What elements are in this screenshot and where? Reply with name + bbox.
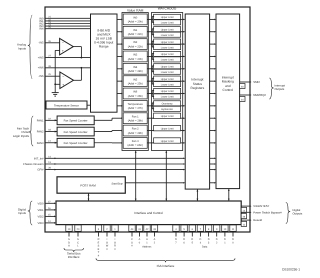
- svg-text:IN4: IN4: [133, 66, 138, 69]
- svg-text:IN4: IN4: [39, 28, 44, 31]
- svg-text:Registers: Registers: [191, 86, 205, 90]
- wire IN4: [45, 28, 91, 30]
- wire watchdog to interrupt status row 4: [181, 68, 184, 70]
- wire value to watchdog row 9: [147, 130, 153, 132]
- svg-text:IN5: IN5: [133, 78, 138, 81]
- register Fan 1 value (Addr = 28h): [123, 113, 147, 124]
- svg-text:IN1: IN1: [133, 29, 138, 32]
- wire interrupt status to masking row 2: [210, 43, 215, 45]
- wire value to watchdog row 4: [147, 68, 152, 70]
- pin 10 bottom stub: [224, 225, 226, 237]
- wire fan counter 1 to value RAM: [94, 119, 112, 121]
- block A/D converter and MUX: [91, 14, 118, 112]
- svg-text:Control: Control: [223, 88, 234, 92]
- wire Chassis Intrusion: [45, 163, 184, 165]
- wire GPI# continuation to interrupt masking: [210, 169, 215, 171]
- pin 19 bottom stub: [68, 225, 70, 237]
- svg-text:Fan Speed Counter: Fan Speed Counter: [64, 120, 88, 123]
- wire temperature sensor to A/D: [87, 104, 91, 106]
- wire interrupt status to masking row 8: [210, 117, 215, 119]
- register watchdog lower limit row 3: [154, 57, 181, 62]
- register watchdog upper limit row 3: [154, 51, 181, 56]
- wire value to watchdog row 7: [147, 105, 152, 107]
- pin 43 bottom stub: [154, 225, 156, 237]
- svg-text:VID4/NTEST: VID4/NTEST: [253, 204, 269, 208]
- ground: [52, 92, 59, 94]
- pin 13 (VID4/NTEST): [241, 207, 246, 212]
- pin 5 bottom stub: [183, 225, 185, 237]
- block fan speed counter 1: [57, 116, 94, 125]
- svg-text:Temperature Sensor: Temperature Sensor: [54, 104, 79, 107]
- register watchdog upper limit row 4: [154, 64, 181, 69]
- pin 4 bottom stub: [175, 225, 177, 237]
- svg-text:Upper Limit: Upper Limit: [161, 78, 174, 81]
- wire interrupt status to interface (bidirectional): [196, 189, 198, 201]
- wire Power Switch Bypass# output: [241, 211, 251, 213]
- register IN1 value (Addr = 21h): [123, 26, 147, 37]
- svg-text:IN2: IN2: [133, 41, 138, 44]
- wire value to watchdog row 0: [147, 18, 152, 20]
- pin 2 bottom stub: [106, 225, 108, 237]
- wire NMI/IRQ# output: [240, 94, 251, 96]
- wire interrupt status to masking row 1: [210, 31, 215, 33]
- pin 41 bottom stub: [139, 225, 141, 237]
- svg-text:VID3: VID3: [38, 222, 44, 225]
- register watchdog lower limit row 6: [154, 94, 181, 99]
- pin 6 bottom stub: [191, 225, 193, 237]
- svg-text:Reset#: Reset#: [253, 218, 262, 222]
- wire VID1: [45, 209, 55, 211]
- wire POST RAM to interface (bidirectional): [88, 193, 90, 201]
- wire Chassis Intrusion continuation to interrupt masking: [210, 163, 215, 165]
- svg-text:Upper Limit: Upper Limit: [161, 90, 174, 93]
- register watchdog lower limit row 4: [154, 69, 181, 74]
- svg-text:POST RAM: POST RAM: [80, 184, 96, 188]
- node junction U3+ / ground rail: [54, 83, 56, 85]
- svg-text:Lower Limit: Lower Limit: [161, 83, 174, 86]
- register watchdog lower limit row 1: [154, 32, 181, 37]
- svg-text:FAN3: FAN3: [37, 142, 44, 145]
- register watchdog upper limit row 7: [154, 101, 181, 106]
- svg-text:Upper Limit: Upper Limit: [161, 140, 174, 143]
- pin 8 bottom stub: [208, 225, 210, 237]
- wire IN3: [45, 25, 91, 27]
- svg-text:Inputs: Inputs: [18, 211, 26, 215]
- wire value to watchdog row 5: [147, 80, 152, 82]
- svg-text:WATCHDOG: WATCHDOG: [158, 7, 177, 11]
- wire INT_In#: [45, 157, 184, 159]
- svg-text:Upper Limit: Upper Limit: [161, 127, 174, 130]
- wire op-amp U3 output to IN6 node: [74, 79, 82, 81]
- wire -IN6: [45, 75, 60, 77]
- wire A/D to value register row 5: [117, 80, 121, 82]
- svg-text:Upper Limit: Upper Limit: [161, 41, 174, 44]
- register Fan 2 value (Addr = 29h): [123, 125, 147, 136]
- svg-text:Lower Limit: Lower Limit: [161, 96, 174, 99]
- svg-text:IN3: IN3: [133, 54, 138, 57]
- svg-text:Fan 1: Fan 1: [132, 115, 139, 118]
- svg-text:Lower Limit: Lower Limit: [161, 34, 174, 37]
- wire interrupt status to masking row 7: [210, 105, 215, 107]
- svg-text:Lower Limit: Lower Limit: [161, 59, 174, 62]
- wire value to watchdog row 3: [147, 55, 152, 57]
- wire interrupt status to masking row 5: [210, 80, 215, 82]
- svg-text:Upper Limit: Upper Limit: [161, 28, 174, 31]
- wire value to watchdog row 8: [147, 117, 153, 119]
- wire op-amp U2 noninverting input to ground rail: [55, 49, 59, 51]
- register watchdog lower limit row 7: [154, 106, 181, 111]
- svg-text:(Addr = 28h): (Addr = 28h): [128, 120, 143, 123]
- svg-text:Lower Limit: Lower Limit: [161, 46, 174, 49]
- register watchdog upper limit row 6: [154, 88, 181, 93]
- svg-text:IN6: IN6: [133, 91, 138, 94]
- wire VID3: [45, 222, 55, 224]
- register watchdog upper limit row 5: [154, 76, 181, 81]
- svg-text:VID0: VID0: [38, 202, 44, 205]
- op-amp U3 (IN6 inverter): [60, 72, 74, 89]
- svg-text:FAN2: FAN2: [37, 131, 44, 134]
- wire watchdog to interrupt status row 0: [181, 18, 184, 20]
- register IN2 value (Addr = 22h): [123, 39, 147, 50]
- register watchdog fan limit row 8: [154, 113, 181, 118]
- register watchdog lower limit row 2: [154, 45, 181, 50]
- pin 9 bottom stub: [216, 225, 218, 237]
- wire IN2: [45, 23, 91, 25]
- wire value to watchdog row 2: [147, 43, 152, 45]
- svg-text:(Addr = 21h): (Addr = 21h): [128, 33, 143, 36]
- block interrupt masking and control: [216, 14, 240, 189]
- pin 11 bottom stub: [232, 225, 234, 237]
- svg-text:Fan 2: Fan 2: [132, 128, 139, 131]
- register watchdog lower limit row 5: [154, 82, 181, 87]
- bracket analog inputs: [28, 15, 32, 79]
- svg-text:-IN5: -IN5: [38, 42, 44, 45]
- svg-text:(Addr = 22h): (Addr = 22h): [128, 45, 143, 48]
- wire +IN6: [45, 67, 91, 69]
- svg-text:−: −: [62, 75, 64, 79]
- pin 36 (Power Switch Bypass#): [241, 214, 246, 219]
- pin 3 bottom stub: [98, 225, 100, 237]
- svg-text:Upper Limit: Upper Limit: [161, 66, 174, 69]
- wire fan counter 3 to value RAM: [94, 142, 112, 144]
- svg-text:Value RAM: Value RAM: [127, 9, 144, 13]
- svg-text:INT_In#: INT_In#: [34, 157, 44, 160]
- wire A/D to value register row 0: [117, 18, 121, 20]
- svg-text:Start/Stop: Start/Stop: [111, 183, 123, 186]
- wire watchdog to interrupt status row 10: [181, 142, 184, 144]
- wire POST RAM start/stop to interrupt status: [125, 182, 183, 184]
- wire watchdog to interface (bidirectional): [165, 151, 167, 202]
- wire interrupt status to masking row 10: [210, 142, 215, 144]
- wire interrupt status to masking row 9: [210, 130, 215, 132]
- svg-text:Logic Inputs: Logic Inputs: [13, 134, 30, 138]
- block interrupt status registers: [185, 14, 209, 189]
- wire value RAM to interface (bidirectional): [135, 151, 137, 202]
- wire interrupt status to masking row 6: [210, 93, 215, 95]
- svg-text:Upper Limit: Upper Limit: [161, 16, 174, 19]
- svg-text:+IN5: +IN5: [38, 57, 44, 60]
- wire interrupt status to masking row 0: [210, 18, 215, 20]
- register Temperature value (Addr = 27h): [123, 100, 147, 111]
- svg-text:NMI/IRQ#: NMI/IRQ#: [253, 93, 266, 97]
- wire interrupt status to masking row 4: [210, 68, 215, 70]
- svg-text:DS100236-1: DS100236-1: [282, 268, 300, 272]
- wire start/stop continuation to interrupt masking: [210, 182, 215, 184]
- svg-text:(Addr = 23h): (Addr = 23h): [128, 58, 143, 61]
- bracket digital inputs: [28, 201, 32, 225]
- wire A/D to value register row 2: [117, 43, 121, 45]
- register Fan 3 value (Addr = 2Ah): [123, 138, 147, 149]
- wire +IN5: [45, 57, 91, 59]
- svg-text:Data: Data: [202, 245, 208, 248]
- register IN5 value (Addr = 25h): [123, 76, 147, 87]
- wire A/D to value register row 6: [117, 93, 121, 95]
- svg-text:Chassis Intrusion: Chassis Intrusion: [23, 163, 44, 166]
- svg-text:+: +: [62, 49, 64, 53]
- svg-text:Hysteresis: Hysteresis: [161, 108, 173, 111]
- svg-text:(Addr = 25h): (Addr = 25h): [128, 82, 143, 85]
- block fan speed counter 3: [57, 138, 94, 147]
- svg-text:Upper Limit: Upper Limit: [161, 115, 174, 118]
- register watchdog upper limit row 2: [154, 39, 181, 44]
- register IN4 value (Addr = 24h): [123, 63, 147, 74]
- wire SMI# output: [240, 81, 251, 83]
- svg-text:FAN1: FAN1: [37, 119, 44, 122]
- svg-text:Fan Speed Counter: Fan Speed Counter: [64, 131, 88, 134]
- wire GPI#: [45, 169, 184, 171]
- svg-text:Overtemp: Overtemp: [162, 103, 174, 106]
- svg-text:(Addr = 24h): (Addr = 24h): [128, 70, 143, 73]
- svg-text:Outputs: Outputs: [293, 211, 303, 215]
- register IN6 value (Addr = 26h): [123, 88, 147, 99]
- wire A/D to value register row 7: [117, 105, 121, 107]
- bracket ISA interface: [96, 258, 235, 262]
- svg-text:Lower Limit: Lower Limit: [161, 71, 174, 74]
- block interface and control: [56, 201, 241, 225]
- register watchdog upper limit row 0: [154, 14, 181, 19]
- wire IN0: [45, 17, 91, 19]
- bracket digital outputs: [286, 203, 290, 224]
- wire value to watchdog row 1: [147, 31, 152, 33]
- pin 24 (NMI/IRQ#): [240, 97, 245, 102]
- svg-text:(Addr = 29h): (Addr = 29h): [128, 132, 143, 135]
- svg-text:ISA Interface: ISA Interface: [157, 264, 175, 268]
- svg-text:VID2: VID2: [38, 215, 44, 218]
- pin 44 bottom stub: [131, 225, 133, 237]
- wire watchdog to interrupt status row 7: [181, 105, 184, 107]
- svg-text:Address: Address: [142, 245, 152, 248]
- svg-text:(Addr = 26h): (Addr = 26h): [128, 95, 143, 98]
- svg-text:+: +: [62, 83, 64, 87]
- register watchdog fan limit row 10: [154, 138, 181, 143]
- wire VID2: [45, 215, 55, 217]
- wire interrupt masking to interface (bidirectional): [228, 189, 230, 201]
- wire watchdog to interrupt status row 2: [181, 43, 184, 45]
- svg-text:(Addr = 27h): (Addr = 27h): [128, 107, 143, 110]
- wire VID0: [45, 202, 55, 204]
- wire FAN2 input: [45, 131, 58, 133]
- wire value to watchdog row 10: [147, 142, 153, 144]
- svg-text:Outputs: Outputs: [275, 87, 285, 91]
- svg-text:(Addr = 2Ah): (Addr = 2Ah): [128, 144, 143, 147]
- register watchdog lower limit row 0: [154, 20, 181, 25]
- svg-text:Lower Limit: Lower Limit: [161, 22, 174, 25]
- svg-text:−: −: [62, 41, 64, 45]
- wire interrupt status to masking row 3: [210, 55, 215, 57]
- block temperature sensor: [46, 101, 87, 109]
- node IN5 junction: [81, 57, 83, 59]
- chip U1 outer boundary: [45, 7, 250, 232]
- svg-text:GPI#: GPI#: [37, 169, 44, 172]
- svg-text:Interface and Control: Interface and Control: [134, 211, 163, 215]
- wire watchdog to interrupt status row 1: [181, 31, 184, 33]
- block POST RAM: [57, 177, 125, 193]
- wire IN1: [45, 20, 91, 22]
- wire Reset# output: [241, 219, 251, 221]
- node IN6 junction: [81, 67, 83, 69]
- wire A/D to value register row 1: [117, 31, 121, 33]
- wire watchdog to interrupt status row 8: [181, 117, 184, 119]
- wire FAN1 input: [45, 119, 58, 121]
- pin 11 (Reset#): [241, 221, 246, 226]
- wire fan counter 2 to value RAM: [94, 131, 112, 133]
- register IN3 value (Addr = 23h): [123, 51, 147, 62]
- block fan speed counter 2: [57, 127, 94, 136]
- register watchdog upper limit row 1: [154, 27, 181, 32]
- pin 40 (SMI#): [240, 84, 245, 89]
- pin 42 bottom stub: [146, 225, 148, 237]
- svg-text:-IN6: -IN6: [38, 75, 44, 78]
- wire watchdog to interrupt status row 9: [181, 130, 184, 132]
- op-amp U2 (IN5 inverter): [60, 38, 74, 55]
- svg-text:IN0: IN0: [133, 17, 138, 20]
- wire -IN5: [45, 42, 60, 44]
- svg-text:SMI#: SMI#: [253, 80, 260, 84]
- bracket interrupt outputs: [269, 78, 273, 99]
- wire value to watchdog row 6: [147, 93, 152, 95]
- wire A/D to value register row 4: [117, 68, 121, 70]
- wire watchdog to interrupt status row 6: [181, 93, 184, 95]
- svg-text:Inputs: Inputs: [18, 46, 26, 50]
- register watchdog fan limit row 9: [154, 125, 181, 130]
- pin 7 bottom stub: [199, 225, 201, 237]
- svg-text:Temperature: Temperature: [128, 103, 144, 106]
- wire op-amp U2 output to IN5 node: [73, 46, 81, 48]
- svg-text:Range: Range: [99, 44, 109, 48]
- svg-text:(Addr = 20h): (Addr = 20h): [128, 21, 143, 24]
- bracket fan inputs: [29, 116, 33, 146]
- wire A/D to value register row 3: [117, 55, 121, 57]
- wire op-amp U3 noninverting input: [55, 83, 60, 85]
- svg-text:Fan Speed Counter: Fan Speed Counter: [64, 142, 88, 145]
- svg-text:Power Switch Bypass#: Power Switch Bypass#: [253, 210, 282, 214]
- svg-text:Upper Limit: Upper Limit: [161, 53, 174, 56]
- wire watchdog to interrupt status row 5: [181, 80, 184, 82]
- svg-text:Fan 3: Fan 3: [132, 140, 139, 143]
- pin 1 bottom stub: [114, 225, 116, 237]
- wire watchdog to interrupt status row 3: [181, 55, 184, 57]
- bracket serial bus interface: [64, 248, 84, 252]
- svg-text:+IN6: +IN6: [38, 67, 44, 70]
- svg-text:VID1: VID1: [38, 209, 44, 212]
- pin 20 bottom stub: [77, 225, 79, 237]
- wire INT_In# continuation to interrupt masking: [210, 157, 215, 159]
- wire FAN3 input: [45, 142, 58, 144]
- wire VID4/NTEST output: [241, 205, 251, 207]
- svg-text:Interface: Interface: [68, 255, 80, 259]
- register IN0 value (Addr = 20h): [123, 14, 147, 25]
